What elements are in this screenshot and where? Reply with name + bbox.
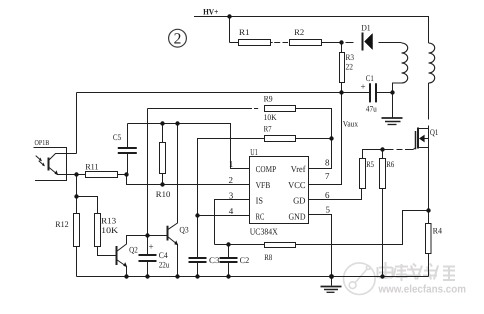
- svg-text:U1: U1: [250, 147, 257, 157]
- svg-text:R7: R7: [264, 123, 272, 133]
- svg-text:www.elecfans.com: www.elecfans.com: [378, 284, 467, 296]
- svg-text:VFB: VFB: [256, 180, 271, 190]
- svg-text:Vref: Vref: [291, 164, 306, 174]
- svg-text:UC384X: UC384X: [250, 226, 278, 236]
- svg-text:R6: R6: [386, 159, 394, 169]
- svg-text:HV+: HV+: [203, 7, 218, 17]
- svg-text:4: 4: [229, 206, 234, 216]
- svg-text:R2: R2: [294, 27, 304, 37]
- svg-text:C5: C5: [113, 132, 121, 142]
- svg-text:C1: C1: [366, 73, 374, 83]
- svg-text:VCC: VCC: [288, 180, 305, 190]
- svg-text:Q3: Q3: [179, 224, 188, 234]
- svg-text:R13: R13: [101, 215, 116, 225]
- svg-text:R11: R11: [85, 161, 98, 171]
- svg-text:Q2: Q2: [129, 244, 138, 254]
- svg-text:C3: C3: [209, 255, 219, 265]
- svg-text:2: 2: [229, 175, 234, 185]
- svg-text:D1: D1: [361, 22, 371, 32]
- svg-text:2: 2: [174, 31, 182, 48]
- svg-text:Q1: Q1: [430, 127, 439, 137]
- svg-text:IS: IS: [256, 196, 263, 206]
- svg-text:Vaux: Vaux: [343, 118, 359, 128]
- svg-text:+: +: [361, 82, 366, 92]
- svg-text:22u: 22u: [159, 259, 170, 269]
- svg-text:7: 7: [325, 171, 330, 181]
- svg-text:6: 6: [325, 190, 330, 200]
- svg-text:R8: R8: [264, 252, 272, 262]
- svg-text:C2: C2: [240, 255, 250, 265]
- svg-text:22: 22: [346, 62, 354, 72]
- svg-text:GD: GD: [293, 196, 306, 206]
- svg-text:R10: R10: [156, 189, 171, 199]
- svg-text:R4: R4: [433, 226, 443, 236]
- svg-text:R1: R1: [239, 27, 250, 37]
- svg-text:R9: R9: [264, 93, 273, 103]
- svg-text:47u: 47u: [366, 103, 378, 113]
- svg-text:COMP: COMP: [256, 164, 277, 174]
- svg-text:10K: 10K: [264, 112, 278, 122]
- svg-text:+: +: [149, 242, 154, 252]
- svg-text:1: 1: [229, 159, 234, 169]
- svg-text:RC: RC: [256, 211, 265, 221]
- svg-text:GND: GND: [289, 211, 306, 221]
- svg-text:R12: R12: [55, 219, 68, 229]
- svg-text:8: 8: [325, 158, 330, 168]
- svg-text:3: 3: [229, 190, 234, 200]
- svg-text:5: 5: [326, 204, 331, 214]
- svg-text:OP1B: OP1B: [35, 138, 50, 147]
- svg-text:R5: R5: [366, 159, 374, 169]
- svg-text:10K: 10K: [101, 225, 119, 235]
